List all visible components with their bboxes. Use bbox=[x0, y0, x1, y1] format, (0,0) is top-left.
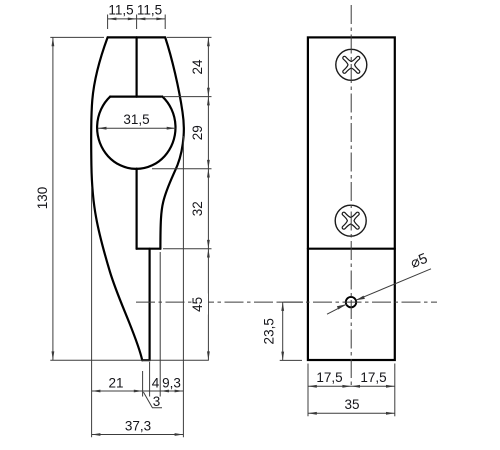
ext top bbox=[50, 36, 104, 38]
dim 23,5 ext bottom bbox=[280, 359, 302, 361]
node: vertical centerline of plate bbox=[350, 5, 352, 388]
ext at ball bottom bbox=[152, 168, 212, 170]
svg-text:11,5: 11,5 bbox=[137, 3, 162, 18]
leader diameter 5 bbox=[327, 269, 431, 314]
dim 11,5/11,5 extension lines bbox=[108, 15, 166, 30]
ext right bulge bbox=[182, 136, 184, 437]
dim 23,5 line bbox=[282, 302, 284, 360]
leader for 3 bbox=[143, 392, 162, 408]
svg-text:45: 45 bbox=[190, 297, 205, 312]
hole 5mm bbox=[346, 297, 356, 307]
svg-text:3: 3 bbox=[153, 394, 161, 409]
wire: handle center split line bbox=[136, 37, 138, 96]
svg-text:4: 4 bbox=[152, 376, 160, 391]
dim 130 line bbox=[52, 37, 54, 360]
wire: plate step line bbox=[308, 248, 395, 250]
dim line 37,3 bbox=[92, 434, 184, 436]
wire: blade right edge bbox=[149, 249, 151, 361]
svg-text:17,5: 17,5 bbox=[316, 370, 342, 385]
dim 23,5 ext top bbox=[280, 301, 303, 303]
ext blade right bbox=[149, 362, 151, 397]
svg-text:130: 130 bbox=[35, 187, 50, 210]
screw S1 phillips cross bbox=[343, 56, 360, 73]
ext plate right bottom bbox=[394, 364, 396, 417]
arrows bbox=[108, 18, 117, 21]
screw S2 head circle bbox=[335, 205, 366, 236]
svg-text:29: 29 bbox=[190, 125, 205, 140]
dim 11,5/11,5 line bbox=[108, 18, 166, 20]
ext at stem bottom bbox=[163, 248, 212, 250]
wire: right S-profile curve bbox=[160, 37, 184, 248]
screw S2 phillips cross bbox=[342, 212, 359, 229]
wire: blade tip bottom edge bbox=[142, 359, 149, 361]
wire: stem bottom edge bbox=[137, 248, 161, 250]
svg-text:35: 35 bbox=[344, 397, 359, 412]
ext bottom shared long line bbox=[50, 359, 209, 361]
ext tip left bbox=[142, 371, 144, 397]
wire: handle top edge bbox=[108, 36, 166, 38]
svg-text:11,5: 11,5 bbox=[108, 3, 133, 18]
ext at chord level bbox=[163, 96, 212, 98]
wire: chord line at top of ball bbox=[110, 95, 161, 97]
node: ball circle (31,5 dia) bbox=[97, 97, 175, 169]
dim text 45 background bbox=[195, 294, 208, 315]
ext stem right bbox=[159, 252, 161, 397]
ext blade leftmost bbox=[91, 188, 93, 437]
ext at top bbox=[167, 36, 212, 38]
screw S1 head circle bbox=[336, 49, 367, 80]
ext plate left bottom bbox=[307, 364, 309, 417]
svg-text:32: 32 bbox=[190, 201, 205, 216]
svg-text:9,3: 9,3 bbox=[162, 376, 181, 391]
node: horizontal pivot axis centerline bbox=[136, 301, 437, 303]
wire: stem left edge bbox=[136, 169, 138, 249]
dim line 35 bbox=[308, 412, 395, 414]
svg-text:17,5: 17,5 bbox=[360, 370, 386, 385]
dim line 21/4/9,3 bbox=[92, 390, 184, 392]
chain dim line bbox=[207, 37, 209, 360]
dim 31,5 line bbox=[98, 127, 176, 129]
svg-text:23,5: 23,5 bbox=[262, 318, 277, 344]
dim line 17,5/17,5 bbox=[308, 385, 395, 387]
wire: blade outer left curve bbox=[91, 37, 142, 360]
svg-text:31,5: 31,5 bbox=[123, 112, 149, 127]
svg-text:24: 24 bbox=[190, 59, 205, 75]
node: plate outline bbox=[308, 37, 395, 360]
svg-text:37,3: 37,3 bbox=[125, 419, 151, 434]
svg-text:21: 21 bbox=[108, 376, 123, 391]
